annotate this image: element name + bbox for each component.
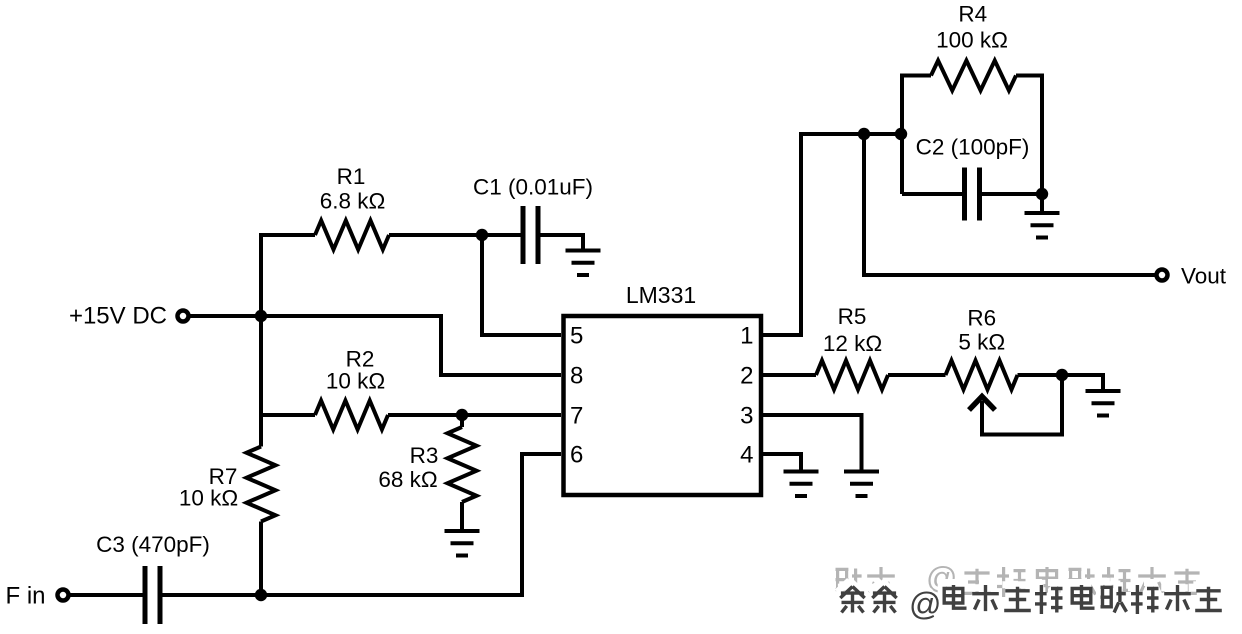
svg-text:R4: R4 — [958, 2, 987, 27]
svg-text:R3: R3 — [410, 443, 439, 468]
svg-text:5: 5 — [570, 323, 583, 350]
wire pin 4 to ground — [763, 454, 801, 470]
wire C3 to pin 6 — [163, 454, 562, 595]
svg-text:7: 7 — [570, 403, 583, 430]
svg-text:F in: F in — [5, 583, 45, 610]
wire C2 to loop bottom right — [982, 192, 1043, 196]
node junction R6 wiper tie — [1056, 369, 1068, 381]
wire R2 to pin 7 — [388, 413, 561, 417]
node junction loop left — [895, 128, 907, 140]
ground at C1 — [566, 251, 601, 276]
svg-text:C2 (100pF): C2 (100pF) — [916, 135, 1030, 160]
wire pin 3 to ground — [763, 415, 862, 470]
resistor R1 6.8 kΩ — [315, 164, 389, 250]
wire pin 2 to R5 — [763, 373, 816, 377]
wire R6 to ground stem — [1018, 375, 1104, 389]
R6 wiper arrow — [969, 397, 995, 411]
terminal Vout — [1157, 264, 1227, 289]
svg-text:+15V DC: +15V DC — [69, 303, 167, 330]
node junction C2/ground — [1036, 188, 1048, 200]
wire C2 node to ground — [1040, 194, 1044, 211]
wire pin 1 up to feedback node — [763, 134, 902, 335]
svg-text:@: @ — [909, 586, 941, 622]
capacitor C1 0.01uF — [473, 175, 593, 265]
resistor R4 100 kΩ — [931, 2, 1016, 91]
svg-text:R1: R1 — [337, 164, 366, 189]
wire Vout line — [864, 134, 1156, 275]
svg-text:68 kΩ: 68 kΩ — [378, 467, 437, 492]
svg-text:R5: R5 — [838, 304, 867, 329]
ground at pin 3 — [844, 472, 879, 497]
wire R1 to C1 — [389, 233, 521, 237]
wire +15V supply feed to pin 8 — [188, 316, 561, 375]
ground at R6 — [1086, 391, 1121, 416]
wire pin 7 line left lead — [261, 413, 315, 417]
wire F in to C3 — [68, 593, 143, 597]
ground at pin 4 — [784, 472, 819, 497]
svg-text:R6: R6 — [967, 306, 996, 331]
terminal +15V DC — [69, 303, 189, 330]
svg-text:100 kΩ: 100 kΩ — [936, 28, 1008, 53]
watermark — [836, 560, 1222, 622]
IC U1 LM331 body — [564, 282, 762, 495]
svg-text:10 kΩ: 10 kΩ — [179, 486, 238, 511]
svg-text:3: 3 — [740, 403, 753, 430]
ground at R3 — [445, 531, 480, 556]
capacitor C2 100pF — [916, 135, 1030, 221]
resistor R3 68 kΩ — [378, 415, 476, 529]
svg-text:6.8 kΩ: 6.8 kΩ — [320, 189, 386, 214]
terminal F in — [5, 583, 68, 610]
wire left vertical rail — [261, 235, 315, 447]
wire node to pin 5 — [482, 235, 561, 335]
wire R7 to F-in line — [259, 522, 263, 596]
svg-text:4: 4 — [740, 442, 753, 469]
wire R5 to R6 — [888, 373, 946, 377]
node junction R2/R3/pin7 — [456, 409, 468, 421]
wire R4 to loop right vertical — [1016, 76, 1042, 195]
node junction F-in line / left rail — [255, 589, 267, 601]
node junction +15V / left rail — [255, 310, 267, 322]
resistor R7 10 kΩ — [179, 447, 276, 522]
resistor R5 12 kΩ — [816, 304, 888, 390]
svg-text:LM331: LM331 — [626, 282, 696, 308]
svg-text:5 kΩ: 5 kΩ — [958, 330, 1005, 355]
wire wiper loop — [982, 375, 1062, 435]
node junction Vout branch — [858, 128, 870, 140]
svg-text:10 kΩ: 10 kΩ — [326, 369, 385, 394]
ground at C2 — [1025, 213, 1060, 238]
svg-text:12 kΩ: 12 kΩ — [823, 331, 882, 356]
svg-text:6: 6 — [570, 442, 583, 469]
wire R4/C2 loop left and top lead — [902, 76, 931, 195]
svg-text:C3 (470pF): C3 (470pF) — [96, 532, 210, 557]
svg-text:1: 1 — [740, 323, 753, 350]
svg-text:C1 (0.01uF): C1 (0.01uF) — [473, 175, 593, 200]
resistor R2 10 kΩ — [315, 347, 388, 430]
wire C1 to ground — [540, 235, 583, 249]
wire loop bottom left to C2 — [902, 192, 963, 196]
resistor R6 potentiometer 5 kΩ — [946, 306, 1018, 390]
svg-text:Vout: Vout — [1181, 264, 1227, 289]
node junction R1/C1/pin5 branch — [476, 229, 488, 241]
svg-text:2: 2 — [740, 363, 753, 390]
capacitor C3 470pF — [96, 532, 210, 624]
svg-text:8: 8 — [570, 363, 583, 390]
